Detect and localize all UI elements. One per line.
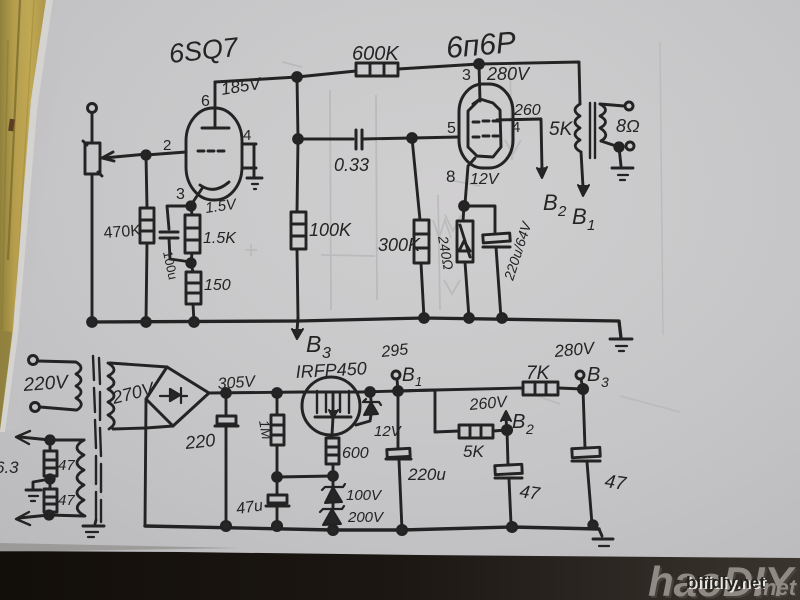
svg-text:470K: 470K [103,222,142,242]
label 600 [342,445,369,462]
wire mid ground bus [88,318,621,338]
svg-text:B: B [512,411,525,433]
svg-text:220V: 220V [22,372,71,396]
ground speaker [612,147,633,180]
wire 270V bottom to bridge [113,426,173,429]
svg-text:600: 600 [342,445,369,462]
label 150 [204,277,231,294]
svg-text:3: 3 [176,186,185,203]
label 280V [486,64,531,84]
bottom ground bus [145,526,599,530]
label 8 ohm [616,116,640,136]
resistor 47 heater top [44,440,57,479]
6SQ7 diode ground [247,178,262,189]
node B2 junction [502,425,511,434]
label 5K bottom [463,442,484,461]
label 220u/64V [500,218,535,282]
wire junction down to 300K [412,138,420,220]
label 7K [526,363,551,384]
label 47u [235,497,264,518]
wire pin3 branch left to cap [167,206,191,229]
label B2 term [512,411,534,437]
wire plate B+ top [215,71,356,82]
svg-text:8: 8 [446,167,455,186]
label 220V [22,372,71,396]
node cathode bottom junction [187,259,195,267]
node source j2 [394,387,403,396]
watermark haoDIY.net [648,558,799,600]
resistor 600 [326,438,339,476]
node source j1 [366,388,375,397]
label IRFP450 [295,358,367,382]
svg-text:1M: 1M [256,419,275,441]
node rail j1 [222,389,231,398]
svg-text:220: 220 [183,430,216,453]
wire junction to pin5 [412,137,459,138]
svg-text:7K: 7K [526,363,551,384]
svg-text:B: B [306,331,321,357]
resistor 47 heater bottom [44,479,57,515]
svg-text:0.33: 0.33 [334,155,369,175]
wire B2 down to cap [507,430,508,465]
svg-text:200V: 200V [347,509,385,526]
label 300K [378,235,421,255]
node pin5 junction [408,134,417,143]
resistor 470K [140,208,154,243]
svg-text:8Ω: 8Ω [616,116,640,136]
wire 600K to 6n6p plate node [398,64,479,69]
capacitor 47 right [572,447,600,524]
6N6P cathode lead pin8 [465,158,475,204]
OT primary coil [575,104,581,152]
wire 100u bottom loop [169,238,191,262]
svg-text:295: 295 [380,341,409,361]
resistor 600K [356,63,398,76]
node rail j2 [273,389,282,398]
6N6P inner plate box [468,99,501,157]
OT core [590,103,595,158]
svg-text:6.3: 6.3 [0,458,19,477]
label 47 right [603,471,628,495]
node heater top junction [46,436,54,444]
wood desk strip left [0,0,46,432]
bridge diode symbol [160,388,187,403]
label 47 heater top [58,457,75,474]
svg-text:3: 3 [462,67,471,84]
svg-text:IRFP450: IRFP450 [295,358,367,382]
label pin 6 [201,93,210,110]
svg-text:220u: 220u [407,465,446,484]
wire B3 down to cap [583,389,585,448]
label 1.5V [204,196,239,217]
svg-text:B: B [587,364,600,386]
svg-text:1: 1 [415,374,422,389]
label 100u [160,250,181,281]
wire 300K to bus [421,263,424,318]
svg-text:5: 5 [447,120,456,137]
label pin 8 [446,167,455,186]
label 295 [380,341,409,361]
label 1M [256,419,275,441]
label 270V [109,378,158,408]
node B3 junction [578,384,587,393]
label 100V [346,487,383,504]
node gate rc junction [273,473,282,482]
B2 arrow up [501,411,511,430]
svg-text:bifidiy.net: bifidiy.net [686,573,765,592]
label pin 2 [163,137,171,154]
label 220u out [407,465,446,484]
6SQ7 plate [202,82,229,128]
wire bridge plus to rail [209,392,302,393]
capacitor 0.33 [298,130,412,149]
6N6P grid1 dashes [473,121,498,122]
wire OT primary to B1 arrow [578,152,589,196]
6N6P grid2 dashes [473,136,498,137]
wire mosfet out rail [361,390,459,432]
mosfet internals [315,391,351,435]
svg-text:300K: 300K [378,235,421,255]
capacitor 220u/64V [483,233,510,318]
mains terminal top [29,356,38,365]
resistor 1.5K [185,206,200,263]
label B3 term [587,364,609,390]
node grid junction [142,151,150,159]
svg-text:6: 6 [201,93,210,110]
label 470K [103,222,142,242]
svg-text:47: 47 [58,457,75,474]
ghost pencil marks (erased schematic) [90,42,680,498]
label 200V [347,509,385,526]
wire pin4 to B2 arrow [497,119,547,178]
terminal B1 [392,371,400,391]
node cathode junction [460,202,469,211]
wire heater top [16,431,84,444]
wire B1 rail to 7K [398,388,523,391]
wire heater bottom [16,512,84,525]
label 47 heater bottom [58,492,75,509]
node heater bottom junction [45,511,53,519]
PT core dashed [93,356,101,522]
paper left edge shading [0,0,70,430]
svg-text:260V: 260V [468,394,509,414]
wire 100K to bus [297,249,298,318]
node bus junctions [88,314,507,327]
wire secondary bottom terminal [601,141,634,150]
svg-text:1: 1 [587,217,595,234]
ground PT core [83,520,104,537]
label pin 4 [512,119,520,136]
label 600K [352,43,400,65]
label 220 [183,430,216,453]
label 260V [468,394,509,414]
resistor 240ohm with diode [457,206,473,318]
wire down to 100K [297,139,298,212]
svg-text:3: 3 [601,374,609,390]
wire plate node to OT primary [479,62,580,104]
label 6n6P [445,26,518,65]
ground heater mid [26,479,50,501]
capacitor 47u supply [266,477,289,526]
wire grid to tube pin2 [146,152,186,208]
svg-text:280V: 280V [486,64,531,84]
label B1 arrow [572,204,595,234]
node heater mid junction [46,475,54,483]
svg-text:B: B [543,190,558,215]
6SQ7 cathode arc [200,182,229,189]
tube 6N6P envelope [459,84,513,168]
svg-text:B: B [402,365,415,386]
terminal B3 [576,371,584,389]
mains terminal bottom [31,403,40,412]
label pin 5 [447,120,456,137]
wire 270V top to bridge [110,363,167,367]
tube 6SQ7 envelope [186,108,242,200]
label 47 mid [518,481,542,504]
node bus dots bottom [221,521,597,535]
paper edge highlight along wood [0,0,53,432]
node gate junction dot [329,472,338,481]
6SQ7 diode plates [243,144,256,176]
svg-text:150: 150 [204,277,231,294]
capacitor 220u output [386,391,411,530]
label 185V [220,74,264,99]
wire bridge minus down to bus [145,400,146,526]
node pin3 junction [187,202,195,210]
mosfet IRFP450 circle [302,377,360,435]
input terminal circle [88,104,97,113]
label 280V bottom [553,338,597,361]
svg-text:5K: 5K [463,442,484,461]
wire rail through mosfet [302,391,361,394]
label B3 mid [306,331,331,362]
svg-text:6п6P: 6п6P [445,26,518,65]
label 240ohm [435,234,457,272]
wire 470K to bus [146,243,147,322]
zener 200V [320,503,344,530]
label pin 4 [243,127,251,144]
svg-text:1.5K: 1.5K [203,230,237,247]
label 1.5K [203,230,237,247]
label 0.33 [334,155,369,175]
wire secondary top terminal [600,102,633,110]
node coupling left junction [294,135,303,144]
label B2 arrow [543,190,567,220]
capacitor 100u plates [160,232,178,238]
svg-text:47: 47 [58,492,75,509]
resistor 5K [459,425,507,438]
ground mid bus right [610,339,632,351]
resistor 7K [523,382,583,395]
PT primary coil [76,362,81,410]
zener 12V gate protect [356,392,381,425]
label 12V [374,423,403,440]
6SQ7 pin3 lead [191,187,203,205]
label 5K [549,119,574,140]
wire gate node right [277,476,333,477]
svg-text:280V: 280V [553,338,597,361]
capacitor 220 [215,393,238,526]
node 6n6p plate junction [475,60,484,69]
label 260 [513,102,541,119]
svg-text:4: 4 [243,127,251,144]
node top junction [293,73,302,82]
label pin 3 6n6p [462,67,471,84]
wire pot bottom to ground bus [91,174,94,322]
PT secondary 270V coil [108,363,114,429]
label 12V [470,171,500,188]
svg-text:2: 2 [557,203,567,220]
B3 arrow from bus [292,318,303,339]
svg-text:2: 2 [163,137,171,154]
resistor 100K [291,212,306,249]
node secondary ground junction [615,143,623,151]
wire input to pot [91,113,94,143]
dark desk bottom [0,551,800,600]
wire cathode to 220u cap [464,206,495,232]
svg-text:100K: 100K [309,220,352,240]
capacitor 47 mid [495,464,522,524]
svg-text:600K: 600K [352,43,400,65]
wire plate lead down [479,64,480,101]
label pin 3 [176,186,185,203]
heater coil [77,440,85,516]
resistor 1M [271,393,284,477]
wire mains to primary [38,361,76,410]
6SQ7 grid dashes [198,150,224,153]
zener 100V [322,476,345,503]
label B1 term [402,365,422,389]
bridge rectifier diamond [146,367,209,426]
svg-text:100V: 100V [346,487,383,504]
svg-text:47: 47 [518,481,542,504]
svg-text:4: 4 [512,119,520,136]
svg-text:B: B [572,204,587,229]
potentiometer VR1 [83,141,147,176]
label 305V [217,373,257,393]
label 6SQ7 [167,32,240,69]
svg-text:2: 2 [525,421,534,437]
svg-text:260: 260 [513,102,541,119]
ground bottom right [593,529,613,546]
wire top junction down [297,77,298,139]
resistor 150 [186,263,201,322]
label 100K [309,220,352,240]
svg-text:12V: 12V [470,171,500,188]
resistor 300K [414,220,429,263]
OT secondary coil [600,104,606,141]
label 6.3 [0,458,19,477]
svg-text:5K: 5K [549,119,574,140]
